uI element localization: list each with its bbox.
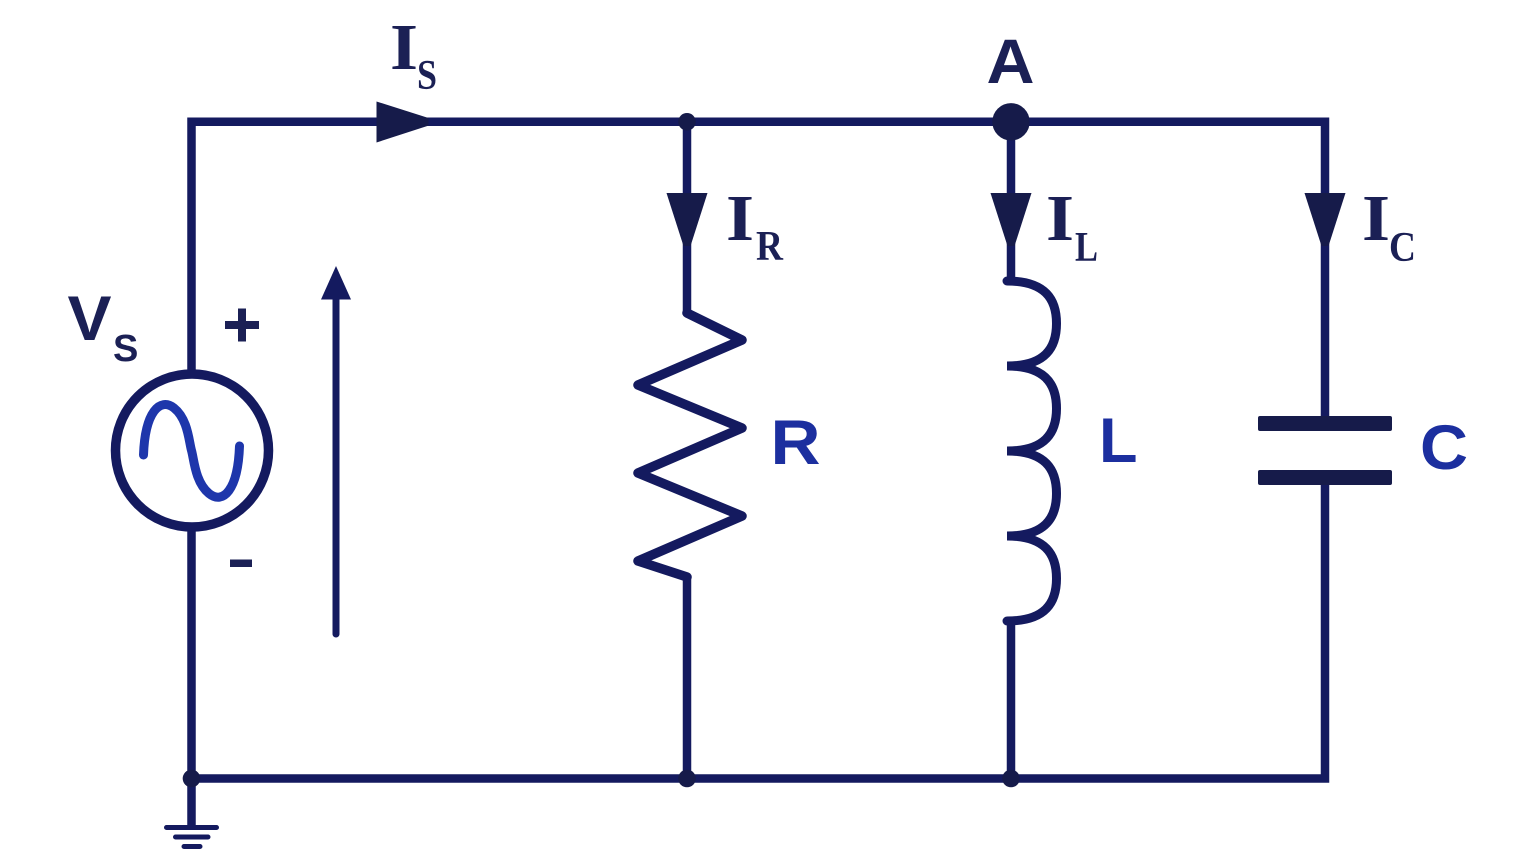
wire: source bottom to ground node [187, 531, 196, 779]
svg-text:I: I [1362, 182, 1390, 255]
capacitor C top plate [1258, 416, 1392, 431]
svg-text:S: S [113, 328, 138, 370]
arrow IR down [667, 193, 708, 246]
inductor L coil [1007, 281, 1057, 621]
svg-text:A: A [987, 27, 1035, 97]
svg-text:V: V [68, 284, 112, 354]
ground symbol [187, 779, 196, 827]
wire: resistor branch bottom [683, 575, 692, 779]
arrow Is on top wire [377, 102, 429, 143]
wire: inductor branch top [1007, 122, 1016, 283]
svg-text:I: I [1046, 182, 1074, 255]
junction dot resistor top [678, 113, 696, 131]
svg-text:I: I [390, 11, 418, 84]
svg-text:C: C [1420, 413, 1468, 483]
svg-text:L: L [1099, 406, 1137, 476]
resistor R zigzag [638, 313, 742, 577]
wire: resistor branch top [683, 122, 692, 315]
junction dot inductor bottom [1002, 770, 1020, 788]
wire: inductor branch bottom [1007, 619, 1016, 779]
node A dot [992, 103, 1029, 140]
plus sign [225, 321, 259, 329]
svg-text:C: C [1389, 225, 1416, 271]
svg-text:S: S [417, 53, 437, 99]
arrow IL down [991, 193, 1032, 246]
svg-text:R: R [771, 408, 821, 478]
svg-text:I: I [726, 182, 754, 255]
voltage source AC circle Vs [116, 374, 269, 527]
sine wave inside source [144, 405, 240, 498]
wire: bottom bus + capacitor bottom riser [192, 484, 1326, 779]
svg-text:L: L [1075, 225, 1098, 271]
junction dot ground node [183, 770, 201, 788]
junction dot resistor bottom [678, 770, 696, 788]
wire: left vertical + top bus + right drop to capacitor [192, 122, 1326, 417]
svg-text:R: R [756, 224, 784, 270]
minus sign [230, 560, 252, 568]
arrow IC down [1305, 193, 1346, 246]
up arrow (loop current) [333, 297, 340, 634]
capacitor C bottom plate [1258, 470, 1392, 485]
